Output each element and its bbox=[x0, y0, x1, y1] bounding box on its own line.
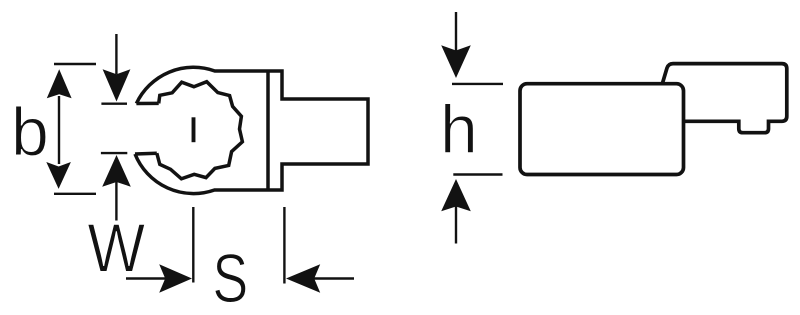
dimension S left extension line bbox=[192, 207, 194, 283]
slot top edge bbox=[136, 102, 158, 106]
dimension b bottom tick bbox=[54, 193, 96, 195]
dimension W lower arrow (pointing up) bbox=[102, 155, 131, 221]
dimension S right arrow (pointing left) bbox=[286, 264, 354, 292]
flange interior line bbox=[266, 71, 270, 190]
svg-text:S: S bbox=[213, 241, 249, 315]
svg-text:W: W bbox=[88, 209, 146, 286]
dimension S right extension line bbox=[283, 207, 285, 284]
12-point internal profile bbox=[157, 82, 243, 179]
dimension W upper arrow (pointing down) bbox=[103, 34, 131, 102]
dimension h lower arrow (pointing up) bbox=[441, 179, 471, 244]
svg-text:h: h bbox=[440, 92, 478, 168]
svg-text:b: b bbox=[11, 94, 49, 170]
side view head outline (right view, drawn behind shank) bbox=[662, 64, 787, 133]
side view shank rounded rectangle bbox=[520, 84, 684, 175]
dimension S left arrow (pointing right) bbox=[126, 264, 192, 292]
dimension h bottom tick bbox=[453, 173, 502, 175]
dimension b double arrow bbox=[46, 69, 71, 189]
center mark bar bbox=[192, 117, 196, 142]
dimension h upper arrow (pointing down) bbox=[441, 12, 471, 78]
slot bottom edge bbox=[135, 151, 157, 155]
dimension b top tick bbox=[54, 63, 96, 65]
dimension W lower tick bbox=[101, 152, 127, 154]
dimension h top tick bbox=[452, 83, 503, 85]
ring head outer outline with neck, flange and tang (left view) bbox=[135, 67, 368, 193]
dimension W upper tick bbox=[101, 102, 127, 104]
